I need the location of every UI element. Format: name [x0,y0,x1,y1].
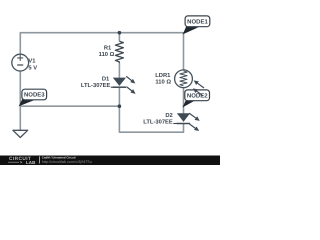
wire top rail from V1+ up and across to right column [20,33,183,70]
svg-text:LTL-307EE: LTL-307EE [81,82,111,89]
D1 light arrow 2 [125,85,137,96]
LDR1 value label [155,73,171,85]
footer separator [38,156,41,163]
junction dot at R1 top [118,31,122,35]
CircuitLab logo [8,156,35,165]
wire D1 cathode down, across bottom, up to D2 cathode [119,87,183,132]
LDR1 light arrow 1 [192,79,205,90]
footer bar [0,156,220,166]
LDR1 light arrow 2 [192,87,205,98]
wire bottom-left from NODE3 junction to D1 junction [20,105,119,107]
wire R1 bottom to D1 anode [118,63,120,77]
node NODE2 pointer [182,100,195,107]
V1 value label [28,58,37,71]
svg-text:V1: V1 [28,58,36,64]
voltage source V1 [12,54,29,71]
node NODE3 pointer [19,99,35,106]
ground [13,130,28,137]
svg-text:D2: D2 [165,112,172,119]
D1 light arrow 1 [125,75,137,86]
node NODE1 pointer [183,27,199,35]
svg-text:LTL-307EE: LTL-307EE [143,118,173,125]
junction dot at D1 cathode / bottom wire [118,104,122,108]
node NODE3 label [22,89,47,100]
resistor R1 [115,41,123,63]
svg-text:5 V: 5 V [28,65,37,71]
svg-text:NODE2: NODE2 [187,92,208,99]
wire LDR1 bottom to D2 anode [183,88,185,114]
node NODE1 label [185,16,210,27]
svg-text:110 Ω: 110 Ω [99,51,115,58]
svg-text:110 Ω: 110 Ω [155,79,171,86]
node NODE2 label [185,90,210,101]
svg-text:http://circuitlab.com/c/4j9475: http://circuitlab.com/c/4j9475u [42,160,92,164]
wire R1 top lead [118,33,120,42]
svg-text:CadM / Unnamed Circuit: CadM / Unnamed Circuit [42,156,76,159]
D2 light arrow 2 [188,122,200,133]
D1 value label [81,76,111,89]
D2 value label [143,112,173,126]
R1 value label [99,45,115,58]
wire V1- down to ground [19,71,21,130]
D2 light arrow 1 [188,111,201,122]
svg-text:D1: D1 [102,76,110,82]
LED D1 [111,78,126,88]
svg-text:LAB: LAB [26,160,35,165]
svg-text:LDR1: LDR1 [155,73,171,79]
photoresistor LDR1 [175,70,193,88]
svg-text:NODE3: NODE3 [24,92,45,99]
LED D2 [173,113,190,123]
svg-text:NODE1: NODE1 [187,18,208,25]
svg-text:R1: R1 [104,45,112,51]
